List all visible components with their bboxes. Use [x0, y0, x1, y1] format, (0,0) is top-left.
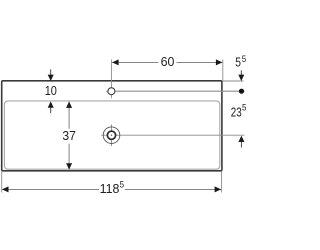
svg-text:5: 5 [242, 103, 246, 114]
wire: drain vertical centerline [111, 125, 113, 147]
node: 5.5 label [235, 54, 246, 69]
wire: 60 dimension line (left part) [112, 61, 158, 63]
node: drain inner circle [107, 131, 115, 139]
node: 5.5 / 23.5 dot marker [239, 89, 244, 94]
node: 60 dim right arrowhead [216, 59, 223, 65]
svg-text:23: 23 [231, 105, 242, 120]
wire: 118.5 right extension line [221, 172, 223, 193]
wire: tap hole horizontal line re-draw right of circle [115, 90, 244, 92]
node: basin inner bowl outline [4, 101, 219, 169]
svg-text:5: 5 [120, 180, 124, 191]
node: 60 dim left arrowhead [112, 59, 119, 65]
wire: drain horizontal centerline [101, 134, 244, 136]
node: 37 label [62, 128, 76, 143]
svg-text:37: 37 [62, 128, 76, 143]
node: 10 label [45, 83, 57, 98]
node: 10 dim down arrow (above top edge) [48, 69, 54, 81]
svg-text:118: 118 [100, 181, 120, 196]
wire: 118.5 dim line (left part) [2, 188, 99, 190]
node: drain outer circle [103, 127, 120, 144]
wire: 118.5 left extension line [1, 172, 3, 193]
svg-text:10: 10 [45, 83, 57, 98]
wire: 118.5 dim line (right part) [125, 188, 221, 190]
svg-text:5: 5 [242, 54, 246, 65]
wire: 37 dim line lower segment [68, 144, 70, 170]
wire: tap-hole horizontal centerline extended right (5.5 / 23.5 reference) [106, 90, 245, 92]
node: 5.5 down arrow [238, 70, 244, 81]
node: 37 dim down arrowhead [66, 163, 72, 169]
svg-text:60: 60 [161, 54, 175, 69]
node: 23.5 up arrow [238, 136, 244, 148]
wire: top edge extension to the right (5.5 ref) [223, 80, 244, 82]
node: 118.5 left arrowhead [2, 186, 9, 192]
node: 37 dim up arrowhead [66, 102, 72, 108]
node: 23.5 label [231, 103, 247, 120]
node: 118.5 label [100, 180, 124, 196]
node: 118.5 right arrowhead [215, 186, 222, 192]
node: 10 dim up arrow (below inner line) [48, 101, 54, 113]
wire: right edge extension up to 60-dim [222, 60, 224, 81]
svg-text:5: 5 [235, 54, 241, 69]
wire: tap-hole vertical centerline / extension up to 60-dim [110, 60, 112, 99]
wire: 37 dim line upper segment [68, 102, 70, 129]
wire: 60 dimension line (right part) [177, 61, 223, 63]
node: 60 label [161, 54, 175, 69]
node: tap hole circle [108, 88, 115, 95]
node: basin outer outline [2, 81, 222, 171]
